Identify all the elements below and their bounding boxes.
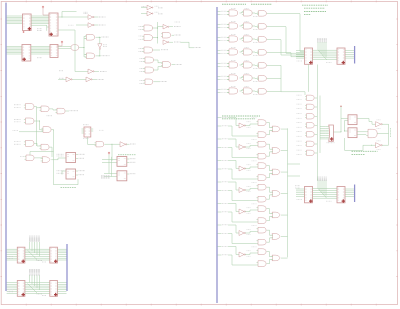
wire collect v281 xyxy=(280,40,282,55)
gate R2 AND xyxy=(163,32,171,38)
wire IC1 to IC2 xyxy=(31,15,49,17)
cluster 5 inverter xyxy=(239,209,244,214)
cluster 4 label gu top xyxy=(252,181,257,183)
row 4 gate1 NAND xyxy=(229,49,238,55)
row 1 gate1 NAND xyxy=(229,10,238,16)
wire diagonal lower xyxy=(318,189,327,199)
hatch labels upper xyxy=(317,39,327,42)
supply VCC xyxy=(108,152,110,154)
colgate 2 out xyxy=(315,106,318,108)
wire IC3 to IC4 xyxy=(31,46,50,48)
cluster 6 wire inv in xyxy=(236,225,239,233)
row 5 wire g1-g2 xyxy=(240,63,244,66)
cluster 7 gate upper AND xyxy=(258,249,266,255)
cluster 6 wire or out xyxy=(281,236,288,238)
cluster 1 input stub a xyxy=(218,117,222,119)
FF4 dflop xyxy=(117,171,127,181)
colgate 7 AND xyxy=(307,150,315,155)
wire left feed lower xyxy=(296,188,305,190)
row 6 gate1 NAND xyxy=(229,75,238,81)
colgate 4 out xyxy=(315,125,318,127)
wire left bus B xyxy=(7,282,18,284)
node branch vertical xyxy=(83,36,85,57)
wire collect to right b xyxy=(288,175,301,177)
wire bus to IC3 xyxy=(7,46,22,48)
row 6 gate3 AND xyxy=(259,76,267,82)
cluster 3 input stub a xyxy=(218,160,222,162)
wire GF-GG xyxy=(34,143,41,146)
label Gbot out xyxy=(102,55,110,57)
cluster 5 wire inv-gu xyxy=(245,210,256,212)
cluster 4 inverter xyxy=(239,188,244,193)
label row2 in xyxy=(59,77,64,79)
IC left lower xyxy=(305,187,313,203)
cluster 5 gate lower AND xyxy=(258,218,266,224)
gate A6 AND xyxy=(145,67,154,73)
row 5 gate3 AND xyxy=(259,63,267,69)
cluster 3 gate lower AND xyxy=(258,175,266,181)
cluster 1 wire inv-gu xyxy=(245,124,256,126)
row 1 wire g2-g3 xyxy=(252,12,258,14)
row 3 gate1 NAND xyxy=(229,36,238,42)
FF2 out labels xyxy=(76,170,78,172)
row 5 input stubs xyxy=(218,62,221,64)
colgate 7 labels xyxy=(297,149,302,151)
colgate 5 out xyxy=(315,134,318,136)
label FF2 left xyxy=(57,170,64,172)
cluster 6 wire gu-or xyxy=(267,230,273,235)
gate A2 AND xyxy=(144,35,153,41)
wire sq2 out xyxy=(357,131,366,133)
row 5 gate2 AND xyxy=(244,62,253,68)
wire M out to branch xyxy=(79,47,84,49)
wire diagonal A xyxy=(28,250,38,260)
cluster 1 gate upper AND xyxy=(258,120,266,126)
cluster 1 gate OR xyxy=(272,126,280,132)
wire GH out xyxy=(104,143,112,145)
cluster 6 inverter xyxy=(239,231,244,236)
supply VCC xyxy=(61,41,63,43)
wire IC5 down xyxy=(88,137,97,144)
cluster 4 input stub b xyxy=(218,190,222,192)
label A8 inputs xyxy=(140,79,144,81)
hatch labels pair A xyxy=(29,236,41,242)
colgate 6 out xyxy=(315,143,318,145)
inverter vertical U5 xyxy=(98,44,102,48)
row 2 gate1 NAND xyxy=(229,23,238,29)
ICA1 latch xyxy=(17,247,25,263)
label A5 inputs xyxy=(140,57,144,59)
row 4 wire g1-g2 xyxy=(240,50,244,53)
inverter T1 xyxy=(147,5,152,10)
cluster 2 wire inv in xyxy=(236,139,239,147)
gate A4 AND xyxy=(144,47,153,53)
wire junction up branch xyxy=(62,12,77,18)
wire ff2 in xyxy=(62,170,66,172)
gate A5 AND xyxy=(145,57,154,63)
cluster 2 gate OR xyxy=(272,148,280,154)
wire b3 out xyxy=(382,144,389,146)
label right A xyxy=(42,261,46,263)
opamp B1 xyxy=(376,122,381,127)
bus stub upper xyxy=(354,46,356,64)
node red junction xyxy=(340,106,341,107)
row 4 gate2 AND xyxy=(244,49,253,55)
cluster 5 gate upper AND xyxy=(258,206,266,212)
cluster 3 wire gl-or xyxy=(267,173,273,177)
cluster 5 wire inv in xyxy=(236,204,239,212)
row 1 input stubs xyxy=(218,10,221,12)
wire mux out xyxy=(334,131,341,133)
label b1 xyxy=(377,119,382,121)
wire collect v300 xyxy=(299,14,301,52)
wire diagonal upper xyxy=(318,50,327,60)
wire right to bus upper xyxy=(345,50,354,52)
label T1 out xyxy=(155,5,160,7)
label left A xyxy=(8,256,14,258)
inverter U6A xyxy=(88,69,93,74)
mux IC7 74151 xyxy=(329,125,334,141)
cluster 2 input stub a xyxy=(218,138,222,140)
cluster 4 gate lower AND xyxy=(258,196,266,202)
cluster 3 wire or out xyxy=(281,171,288,173)
junction xyxy=(61,16,64,19)
FF1 out labels xyxy=(76,154,78,156)
wire col collect stubs to mux xyxy=(320,126,325,128)
cluster 1 wire gl-or xyxy=(267,130,273,134)
cluster 4 wire gl-or xyxy=(267,195,273,199)
wire mid bus lower xyxy=(313,188,338,190)
cluster 7 wire gl-or xyxy=(267,259,273,263)
IC left upper xyxy=(305,48,313,64)
label left B xyxy=(8,289,14,291)
cluster 6 gate lower AND xyxy=(258,239,266,245)
row 5 wire g2-g3 xyxy=(252,64,258,66)
wire v388 xyxy=(388,124,390,145)
wire left bus A xyxy=(7,248,18,250)
colgate 6 labels xyxy=(297,140,302,142)
cluster 1 label gu top xyxy=(252,117,257,119)
wire A7 out xyxy=(172,64,176,66)
green text under xyxy=(61,187,77,189)
inverter T2 xyxy=(147,11,152,16)
ICB2 latch xyxy=(50,281,58,297)
gate B2 AND big xyxy=(368,129,377,138)
cluster 7 wire inv in xyxy=(236,247,239,255)
cluster 3 inverter xyxy=(239,166,244,171)
wire A5A6 to A7 xyxy=(154,60,163,63)
label U6A in xyxy=(59,70,63,72)
wire bus to IC1 xyxy=(7,15,23,17)
label mid A xyxy=(37,260,43,262)
wire Gbot out xyxy=(96,55,102,57)
colgate 5 AND xyxy=(307,132,315,137)
colgate 2 labels xyxy=(297,103,302,105)
IC right lower xyxy=(337,187,345,203)
row 2 gate2 AND xyxy=(244,23,253,29)
cluster 5 label gu top xyxy=(252,203,257,205)
cluster 2 gate lower AND xyxy=(258,153,266,159)
label GE in xyxy=(13,130,19,132)
row 4 input stubs xyxy=(218,49,221,51)
wire to sq1 xyxy=(341,118,348,120)
gate M enable buffer xyxy=(71,45,79,50)
label below upper xyxy=(326,62,332,64)
label A1 inputs xyxy=(139,25,143,27)
node v39 down xyxy=(40,121,44,130)
wire R2 out xyxy=(172,34,175,36)
row 3 gate3 AND xyxy=(259,37,267,43)
cluster 5 input stub b xyxy=(218,211,222,213)
wire collect v281 lower xyxy=(280,65,282,91)
node vertical v157 xyxy=(157,22,159,44)
gate Gbot AND xyxy=(87,53,95,59)
row 3 wire out xyxy=(267,38,281,40)
row 5 gate1 NAND xyxy=(229,62,238,68)
row 2 wire g2-g3 xyxy=(252,25,258,27)
row 3 input stubs xyxy=(218,36,221,38)
label under GC xyxy=(47,115,53,117)
cluster 3 wire gu-or xyxy=(267,166,273,171)
label buffer2 in xyxy=(68,24,74,26)
IC4 74xx register xyxy=(50,45,58,58)
row 6 wire out xyxy=(267,77,281,79)
label Gtop out xyxy=(102,36,110,38)
green text notes xyxy=(302,4,328,6)
row 1 wire out xyxy=(267,12,300,14)
cluster 6 input stub b xyxy=(218,233,222,235)
wire b1 out xyxy=(382,123,389,125)
wire extra pins xyxy=(31,24,47,26)
cluster 2 wire or out xyxy=(281,150,288,152)
cluster 6 wire gl-or xyxy=(267,238,273,242)
cluster 1 inverter xyxy=(239,123,244,128)
IC5 small xyxy=(84,127,91,137)
hatch label FF4 xyxy=(101,176,110,178)
gate GF AND xyxy=(26,140,35,146)
wire A4 out xyxy=(153,49,161,51)
cluster 3 label gu top xyxy=(252,160,257,162)
wire to invR1 xyxy=(158,26,164,28)
wire right to bus lower xyxy=(345,188,354,190)
wire v281 to right col xyxy=(281,92,305,95)
wire b3 in xyxy=(372,144,376,146)
buffer U3A xyxy=(88,15,93,20)
gate A1 AND xyxy=(144,25,153,31)
cluster 4 gate upper AND xyxy=(258,184,266,190)
wire collect v286 xyxy=(285,27,287,53)
wire mux stubs xyxy=(325,126,329,128)
wire v344 xyxy=(344,121,346,132)
label v388 right xyxy=(389,128,391,137)
wire b2 in2 xyxy=(357,134,366,136)
row 7 wire out xyxy=(267,90,281,92)
wire row2 xyxy=(58,79,66,81)
wire diagonal B xyxy=(28,284,38,294)
cluster 6 wire inv-gu xyxy=(245,232,256,234)
cluster 5 wire or out xyxy=(281,214,288,216)
gate Gtop AND xyxy=(87,34,95,40)
wire inv chain xyxy=(99,37,101,44)
row 2 wire g1-g2 xyxy=(240,24,244,27)
gate GK XOR xyxy=(42,157,50,163)
wire long vertical x320 xyxy=(319,96,321,154)
wire out row2 xyxy=(92,79,97,81)
cluster 5 wire gl-or xyxy=(267,216,273,220)
row 6 wire g2-g3 xyxy=(252,77,258,79)
cluster 7 input stub b xyxy=(218,254,222,256)
IC5 pins xyxy=(82,128,85,130)
FF4 outs xyxy=(127,173,129,175)
label under IC3 xyxy=(37,57,42,59)
wire mid bus upper xyxy=(313,49,338,51)
cluster 2 wire gl-or xyxy=(267,152,273,156)
bus stub lower xyxy=(354,185,356,203)
row 3 gate2 AND xyxy=(244,36,253,42)
wire sq1 out xyxy=(357,119,372,122)
wire collect v291 xyxy=(290,53,292,57)
wire IC2 out right xyxy=(58,16,88,18)
wire feedback xyxy=(54,159,79,185)
wire mid bus B xyxy=(25,282,50,284)
cluster 4 gate OR xyxy=(272,191,280,197)
cluster 3 wire inv-gu xyxy=(245,167,256,169)
cluster 2 label gu top xyxy=(252,138,257,140)
row 4 gate3 AND xyxy=(259,50,267,56)
label above IC5 xyxy=(83,124,89,126)
label GJ in xyxy=(20,155,25,157)
green text reset notes xyxy=(352,150,378,152)
cluster 7 wire gu-or xyxy=(267,252,273,257)
cluster 7 wire inv-gu xyxy=(245,253,256,255)
node v53 down xyxy=(53,130,55,159)
inverter R1 xyxy=(163,24,168,29)
wire A8 out xyxy=(153,81,160,83)
gate GB AND xyxy=(41,106,49,112)
inverter R3 xyxy=(163,40,168,45)
label right B xyxy=(42,294,46,296)
label GA inputs xyxy=(14,104,21,106)
label inv right xyxy=(103,44,107,46)
wire to buffer2 xyxy=(76,24,88,26)
wire GE out xyxy=(52,129,54,132)
cluster 6 gate upper AND xyxy=(258,227,266,233)
wire b3 feed xyxy=(345,145,372,150)
FF3 dflop xyxy=(117,157,127,167)
gate GE AND xyxy=(43,127,51,133)
wire FF3 ins xyxy=(102,159,117,161)
wire right bus A xyxy=(57,248,66,250)
wire in T1 xyxy=(141,7,147,9)
cluster 5 wire gu-or xyxy=(267,209,273,214)
IC right upper xyxy=(337,48,345,64)
row 6 input stubs xyxy=(218,75,221,77)
cluster 4 input stub a xyxy=(218,181,222,183)
label GD inputs xyxy=(14,118,21,120)
row 7 gate2 AND xyxy=(244,88,253,94)
cluster 4 wire gu-or xyxy=(267,187,273,192)
label out2 xyxy=(99,24,106,26)
wire into Gbot xyxy=(84,54,86,56)
colgate 3 labels xyxy=(297,113,302,115)
wire GG out xyxy=(50,147,53,157)
cluster 7 input stub a xyxy=(218,246,222,248)
label U6A out xyxy=(94,71,99,73)
wire out xyxy=(94,16,99,18)
wire A1A2 collect xyxy=(153,27,158,29)
cluster 3 gate OR xyxy=(272,169,280,175)
colgate 3 out xyxy=(315,116,318,118)
label faint xyxy=(99,129,104,131)
label below lower xyxy=(326,200,332,202)
wire mid bus A xyxy=(25,248,50,250)
cluster 5 gate OR xyxy=(272,212,280,218)
wire VCC to IC2 xyxy=(43,8,49,15)
cluster 7 label gu top xyxy=(252,246,257,248)
wire GD out xyxy=(34,120,40,122)
ICA2 latch xyxy=(50,247,58,263)
wire long vertical x317 xyxy=(316,65,318,181)
green text matrix title xyxy=(222,3,246,5)
wire GK out xyxy=(51,159,58,161)
label left upper xyxy=(297,60,303,62)
label R1 out xyxy=(175,21,181,23)
hatch labels lower xyxy=(317,177,327,180)
row 1 gate3 AND xyxy=(259,11,267,17)
row 6 gate2 AND xyxy=(244,75,253,81)
colgate 4 labels xyxy=(297,122,302,124)
opamp B3 xyxy=(376,143,381,148)
IC3 74xx register xyxy=(22,45,31,62)
gate GH AND xyxy=(96,141,104,147)
row 2 input stubs xyxy=(218,23,221,25)
wire GH-GI xyxy=(112,143,120,145)
label A6 inputs xyxy=(140,67,144,69)
row 2 gate3 AND xyxy=(259,24,267,30)
label A4 inputs xyxy=(139,47,143,49)
ICB1 latch xyxy=(17,281,25,297)
colgate 4 AND xyxy=(307,123,315,128)
wire cluster collect vertical xyxy=(287,128,289,257)
colgate 7 out xyxy=(315,152,318,154)
label T2 out xyxy=(155,11,160,13)
row 1 wire g1-g2 xyxy=(240,11,244,14)
bus B2 (matrix vertical) xyxy=(216,7,218,303)
gate GC AND xyxy=(57,108,65,114)
wire vcc ic4 xyxy=(57,43,62,46)
inverter U6B xyxy=(66,77,71,82)
wire GJ-GK xyxy=(35,157,43,159)
wire Gtop out xyxy=(96,36,102,38)
wire bundle into IC6 xyxy=(300,50,305,52)
label mid B xyxy=(37,293,43,295)
wire drops A xyxy=(29,242,31,249)
wire R3 to label xyxy=(181,42,195,48)
IC1 74xx register xyxy=(23,14,32,31)
wire GA-GB xyxy=(34,106,37,108)
inverter GI xyxy=(120,142,125,147)
IC sq1 timer xyxy=(348,115,357,125)
bus B1 (left vertical) xyxy=(5,3,7,291)
wire R3 out xyxy=(169,41,173,43)
label GF inputs xyxy=(14,141,21,143)
row 3 wire g2-g3 xyxy=(252,38,258,40)
gate GA AND xyxy=(26,104,35,110)
cluster 4 wire inv-gu xyxy=(245,189,256,191)
wire v112 down xyxy=(111,144,113,161)
cluster 1 wire gu-or xyxy=(267,123,273,128)
label buffer1 xyxy=(84,11,89,13)
